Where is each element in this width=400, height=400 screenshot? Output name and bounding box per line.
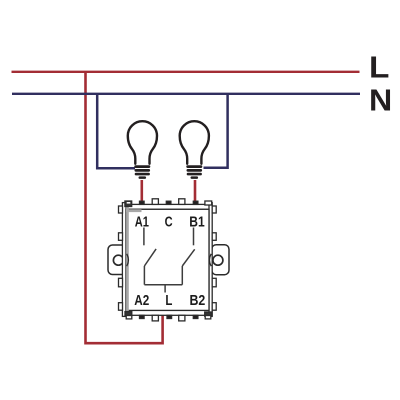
switch blade right (182, 249, 194, 266)
corner cap top-left (125, 201, 132, 207)
mounting ear right (212, 245, 229, 275)
corner cap bottom-left (125, 312, 132, 316)
side tab right 4 (212, 303, 216, 311)
svg-text:B1: B1 (189, 214, 204, 230)
side tab left 1 (119, 206, 123, 213)
lamp E1 (128, 121, 157, 179)
side tab left 4 (119, 303, 123, 311)
terminal tab bottom white 1 (152, 315, 158, 321)
svg-text:A2: A2 (134, 293, 149, 309)
corner cap top-right (205, 201, 212, 205)
terminal screw top A1 (140, 201, 145, 204)
terminal screw bottom A2 (140, 315, 145, 318)
terminal screw bottom L (167, 315, 172, 318)
pin lead A1 (143, 228, 145, 246)
switch contacts internal schematic (144, 228, 195, 293)
ear hole left (113, 255, 123, 265)
ear hole right (213, 255, 223, 265)
svg-text:A1: A1 (135, 214, 149, 230)
corner cap bottom-right (205, 312, 212, 316)
wire bottom bus (144, 284, 182, 286)
wire L tap (164, 285, 166, 293)
wire left lower lead (143, 266, 145, 285)
clip arc right (209, 254, 211, 266)
side tab right 3 (212, 278, 216, 287)
side tab left 2 (119, 233, 123, 241)
svg-text:C: C (165, 214, 173, 230)
side tab right 1 (212, 206, 216, 213)
shading left (126, 203, 129, 316)
svg-text:L: L (165, 293, 172, 309)
right rail (209, 203, 212, 317)
switch module S1 body (108, 199, 229, 321)
wire lamp E1 to terminal A1 (141, 180, 144, 202)
terminal screw bottom B2 (193, 315, 198, 318)
shading top (126, 209, 142, 212)
side tab left 3 (119, 278, 123, 287)
terminal tab bottom white 2 (179, 315, 185, 321)
lamp E2 (180, 121, 209, 179)
terminal screw top C (166, 201, 171, 204)
svg-text:B2: B2 (190, 293, 206, 309)
terminal tab top white 2 (179, 199, 185, 205)
bottom rail (126, 310, 212, 315)
face plate (126, 209, 209, 310)
pin lead B1 (193, 228, 195, 246)
svg-text:N: N (369, 82, 392, 117)
side tab right 2 (212, 233, 216, 241)
left rail (122, 203, 126, 317)
svg-text:L: L (369, 50, 389, 85)
wire N supply line (12, 93, 360, 95)
clip arc left (127, 254, 129, 266)
terminal tab top white 1 (152, 199, 158, 205)
mounting ear left (108, 245, 126, 275)
wire neutral to lamp E1 (97, 94, 135, 168)
wire right lower lead (181, 266, 183, 285)
wire neutral to lamp E2 (204, 94, 228, 168)
wire L supply line (12, 71, 360, 73)
switch blade left (144, 249, 156, 266)
top rail (126, 204, 212, 209)
terminal screw top B1 (193, 201, 198, 204)
wire lamp E2 to terminal B1 (194, 180, 197, 202)
wire live feed from L to switch L terminal (86, 72, 163, 343)
